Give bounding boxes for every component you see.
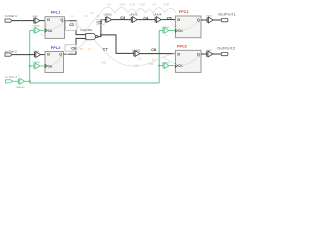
timing arc inside FFL1 xyxy=(48,21,64,30)
node C2 label box xyxy=(97,20,104,25)
svg-text:FFL2: FFL2 xyxy=(51,45,61,50)
svg-text:In Port 1: In Port 1 xyxy=(5,14,17,18)
svg-text:UNV3: UNV3 xyxy=(129,13,137,17)
wire: net C5 UNV4 to FFC1 D xyxy=(161,19,175,21)
svg-text:Q: Q xyxy=(60,17,63,22)
svg-text:In Port 3: In Port 3 xyxy=(5,75,17,79)
node C1 label box xyxy=(66,21,77,30)
timing arc hop 7 into FFC1 xyxy=(165,8,176,13)
svg-text:D: D xyxy=(47,17,50,22)
wire: buffer to OutPort2 xyxy=(213,53,222,55)
timing arc hop 4 xyxy=(136,8,145,12)
wire: net C2 from UNAND1 out up to UNV2 xyxy=(98,20,106,37)
svg-text:0.05: 0.05 xyxy=(149,63,154,66)
svg-text:C7: C7 xyxy=(103,48,108,52)
pin CK of FFC1 xyxy=(175,29,177,32)
wire: green clock trunk bottom xyxy=(30,82,160,84)
svg-text:0.09: 0.09 xyxy=(120,2,126,6)
svg-text:Q: Q xyxy=(59,52,62,57)
timing arc hop 3 xyxy=(128,9,136,13)
svg-text:D: D xyxy=(47,52,50,57)
wire: UNAVB2 to FFL2 CK xyxy=(40,65,45,67)
wire: FFC2 Q to output buffer xyxy=(201,53,207,55)
svg-text:FFL1: FFL1 xyxy=(51,9,61,14)
wire: buffer to OutPort1 xyxy=(213,19,221,21)
svg-text:OutPort2: OutPort2 xyxy=(217,47,235,51)
svg-text:UNAVB1: UNAVB1 xyxy=(32,24,41,27)
wire: green branch to FFC1 CK xyxy=(159,29,163,31)
timing arc UNAND1 to hop chain xyxy=(85,13,101,32)
wire: In Port 3 to clock input buffer xyxy=(13,80,19,82)
timing arc FFL2 Q to UNAND1 xyxy=(66,40,86,54)
svg-text:FFC1: FFC1 xyxy=(179,9,190,14)
wire: UNAVB3 to FFC1 CK xyxy=(169,29,175,31)
svg-text:C2: C2 xyxy=(97,21,102,25)
timing arc UNAND1 down to bottom path xyxy=(94,40,175,67)
wire: UNAVB4 to FFC2 CK xyxy=(169,65,175,67)
svg-text:0.09: 0.09 xyxy=(164,2,170,6)
svg-text:UNV4: UNV4 xyxy=(153,13,161,17)
svg-text:0.36: 0.36 xyxy=(130,2,136,6)
wire: In Port 1 to UNAV1 xyxy=(12,20,34,22)
timing arc hop 1 xyxy=(101,7,116,13)
wire: net C6 from FFL2 Q to UNAND1 input B xyxy=(64,38,86,54)
timing arc inside FFL2 xyxy=(48,56,61,66)
pin CK of FFL1 xyxy=(45,29,47,32)
svg-text:D: D xyxy=(177,51,180,56)
wire: UNAV1 to FFL1 D xyxy=(40,20,45,22)
timing arc hop 6 xyxy=(153,8,165,13)
wire: net C7 branch from UNAND1 out down to UNV5 xyxy=(101,35,134,54)
wire: green clock trunk vertical right xyxy=(158,30,160,83)
timing arc FFL1 Q to UNAND1 xyxy=(65,20,85,32)
svg-text:UNV2: UNV2 xyxy=(104,12,112,16)
timing arc inside FFC1 xyxy=(180,22,198,31)
buffer UNAVB5 clock input xyxy=(18,79,20,85)
wire: green clock trunk vertical left xyxy=(29,30,31,83)
wire: green branch to FFL2 CK xyxy=(30,65,34,67)
svg-text:0.09: 0.09 xyxy=(140,2,146,6)
wire: net C3 UNV2 to UNV3 xyxy=(112,19,132,21)
wire: net C4 UNV3 to UNV4 xyxy=(137,19,155,21)
svg-text:C5: C5 xyxy=(167,17,172,21)
svg-text:Q: Q xyxy=(197,51,200,56)
wire: UNAV2 to FFL2 D xyxy=(41,54,45,56)
node: green junction In Port 3 feed xyxy=(29,80,31,82)
timing arc hop 5 xyxy=(145,9,153,12)
wire: net C1 from FFL1 Q to UNAND1 input A xyxy=(65,21,86,35)
svg-text:0.45: 0.45 xyxy=(101,61,106,64)
svg-text:3.4: 3.4 xyxy=(152,2,156,6)
wire: clock buffer to trunk xyxy=(25,80,30,82)
node: junction at C2/C7 branch xyxy=(100,34,102,36)
svg-text:3.1: 3.1 xyxy=(107,2,111,6)
timing arc into FFC2 CK xyxy=(164,57,178,65)
node: green junction FFC2 branch xyxy=(158,65,160,67)
wire: green branch to FFL1 CK xyxy=(30,29,34,31)
svg-text:C3: C3 xyxy=(120,16,125,20)
svg-text:D: D xyxy=(177,17,180,22)
timing arc inside FFC2 xyxy=(180,57,198,66)
wire: In Port 2 to UNAV2 xyxy=(12,54,34,56)
svg-text:C8: C8 xyxy=(151,48,156,52)
svg-text:UNAVB5: UNAVB5 xyxy=(16,86,25,89)
wire: net C8 UNV5 to FFC2 D xyxy=(140,53,176,55)
timing arc into FFC1 CK xyxy=(171,22,178,31)
wire: FFC1 Q to output buffer xyxy=(201,19,207,21)
wire: green branch to FFC2 CK xyxy=(159,65,163,67)
pin CK of FFL2 xyxy=(45,64,47,67)
timing arc hop 2 xyxy=(115,7,128,12)
pin CK of FFC2 xyxy=(175,64,177,67)
wire: UNAVB1 to FFL1 CK xyxy=(40,29,45,31)
svg-text:OutPort1: OutPort1 xyxy=(218,12,236,16)
svg-text:FFC2: FFC2 xyxy=(177,43,188,48)
node: green junction FFL2 branch xyxy=(29,65,31,67)
svg-text:2.36: 2.36 xyxy=(133,64,138,67)
node C6 label box xyxy=(65,45,76,51)
